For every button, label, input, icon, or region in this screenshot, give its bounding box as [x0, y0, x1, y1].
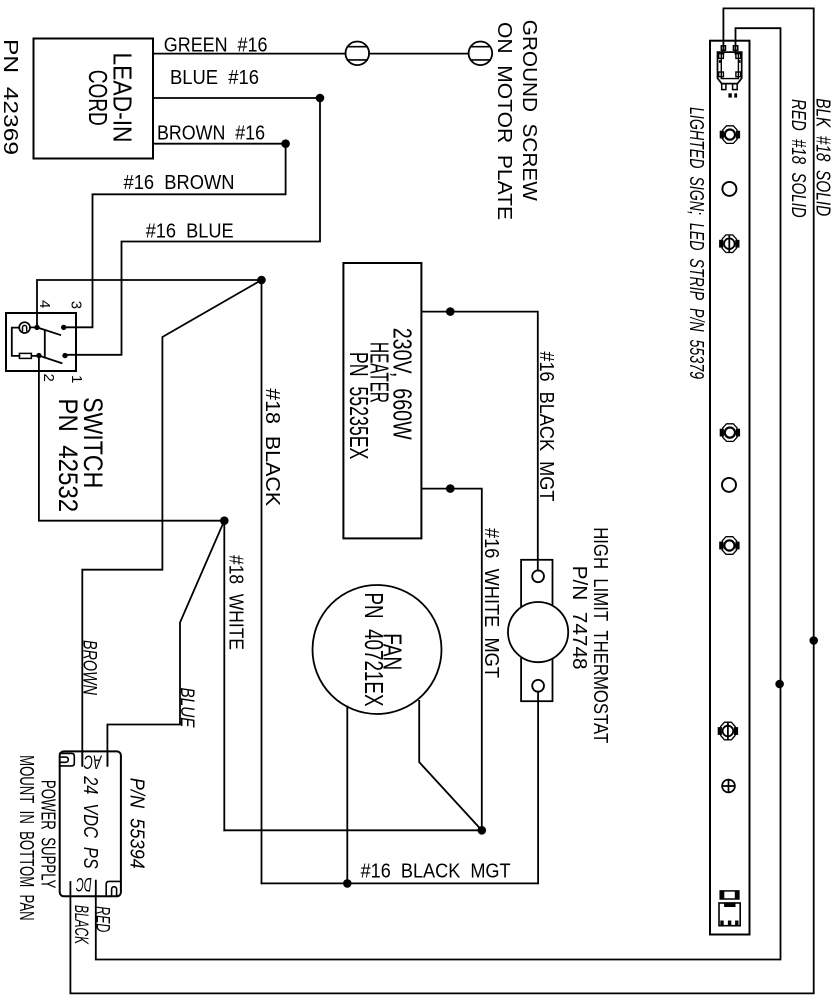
svg-text:#16 WHITE MGT: #16 WHITE MGT [480, 528, 502, 678]
node fan left [343, 879, 352, 888]
svg-text:BLUE: BLUE [176, 688, 197, 728]
heater box [343, 263, 421, 538]
svg-text:CORD: CORD [83, 70, 113, 126]
wire bottom return #16 BLACK MGT y=883 [262, 882, 539, 884]
svg-text:P/N 55394: P/N 55394 [126, 778, 148, 869]
svg-text:2: 2 [40, 374, 57, 382]
svg-text:PN 42369: PN 42369 [0, 39, 21, 155]
wire fan left lead [346, 707, 348, 884]
thermostat body [521, 560, 552, 701]
node A [257, 276, 266, 285]
switch box [6, 313, 76, 371]
svg-text:BLK #18 SOLID: BLK #18 SOLID [812, 98, 834, 216]
wire switch pin4 to node A [37, 280, 262, 327]
switch blade 2-1 [39, 356, 62, 364]
ground screw 1 [346, 42, 370, 66]
svg-text:GREEN #16: GREEN #16 [164, 34, 268, 56]
LED strip hole 1 [722, 182, 736, 196]
wire heater bottom / #16 WHITE MGT [421, 489, 481, 831]
svg-text:BLUE #16: BLUE #16 [170, 67, 259, 89]
svg-text:3: 3 [67, 301, 84, 309]
node on BLUE #16 wire [316, 94, 325, 103]
svg-text:GROUND SCREW: GROUND SCREW [518, 20, 540, 201]
LED strip crosshair hole [722, 780, 735, 793]
LED module 4 [719, 537, 739, 555]
svg-text:4: 4 [36, 300, 53, 308]
wire BLUE #16 [65, 98, 320, 355]
node on BROWN #16 wire [281, 139, 290, 148]
power supply box [60, 751, 121, 896]
wire #18 WHITE vertical [223, 521, 225, 831]
LED strip outline [710, 41, 750, 935]
svg-text:BLACK: BLACK [70, 905, 91, 945]
wire heater top / #16 BLACK MGT to thermostat [421, 312, 537, 571]
svg-text:MOUNT IN BOTTOM PAN: MOUNT IN BOTTOM PAN [15, 755, 37, 921]
svg-text:24 VDC PS: 24 VDC PS [79, 775, 101, 869]
node on BLK #18 wire [809, 636, 818, 645]
switch gang link [44, 330, 46, 358]
svg-text:BROWN: BROWN [79, 640, 100, 695]
switch pin 1 [62, 353, 67, 358]
wire BROWN to power supply AC [82, 280, 261, 766]
svg-text:#16 BLUE: #16 BLUE [146, 221, 234, 243]
svg-text:ON MOTOR PLATE: ON MOTOR PLATE [493, 22, 515, 220]
wire #18 BLACK vertical [261, 280, 263, 883]
wire thermostat bottom lead [537, 692, 539, 884]
wire GREEN #16 [153, 53, 469, 55]
switch neon lamp [19, 322, 37, 333]
svg-text:BROWN #16: BROWN #16 [157, 123, 265, 145]
node B [220, 516, 229, 525]
LED strip connector [718, 46, 742, 98]
svg-text:#18 WHITE: #18 WHITE [225, 555, 247, 650]
wire BROWN #16 [64, 144, 286, 328]
wire RED: power supply DC to LED strip [96, 28, 781, 959]
wire fan right lead [419, 701, 482, 830]
svg-text:#16 BLACK MGT: #16 BLACK MGT [361, 861, 511, 883]
svg-text:1: 1 [68, 375, 85, 383]
wire node B return y=830 [224, 829, 482, 831]
ground screw 2 [469, 42, 493, 66]
switch pin 4 [34, 325, 39, 330]
svg-text:#18 BLACK: #18 BLACK [261, 388, 283, 507]
switch pin 2 [36, 353, 41, 358]
svg-text:#16 BROWN: #16 BROWN [124, 172, 235, 194]
wire BLUE to power supply AC [107, 521, 224, 766]
svg-text:HIGH LIMIT THERMOSTAT: HIGH LIMIT THERMOSTAT [589, 527, 611, 743]
power supply AC pin stubs [82, 751, 107, 765]
switch pin 3 [61, 325, 66, 330]
switch resistor [19, 353, 31, 358]
svg-text:#16 BLACK MGT: #16 BLACK MGT [535, 351, 557, 501]
LED module 2 (phi) [719, 235, 739, 253]
svg-text:P/N 74748: P/N 74748 [568, 566, 590, 670]
wire switch pin2 to node B [39, 356, 224, 521]
svg-text:AC: AC [84, 750, 103, 771]
svg-text:DC: DC [76, 873, 92, 894]
LED module 5 (phi) [718, 722, 738, 740]
LED module 1 [720, 126, 740, 144]
node heater bottom [446, 484, 455, 493]
node on RED #18 wire [775, 680, 784, 689]
lead-in cord box PN 42369 [34, 39, 154, 159]
svg-text:RED: RED [92, 906, 113, 932]
power supply bottom-right notch [106, 881, 121, 896]
svg-text:LIGHTED SIGN; LED STRIP P/: LIGHTED SIGN; LED STRIP P/N 55379 [685, 107, 707, 379]
node heater top [446, 307, 455, 316]
svg-text:RED #18 SOLID: RED #18 SOLID [787, 99, 809, 218]
svg-text:PN 40721EX: PN 40721EX [359, 593, 389, 707]
switch lamp-resistor link wire [12, 328, 39, 356]
svg-text:PN 42532: PN 42532 [53, 398, 83, 512]
node fan/thermo return [478, 826, 487, 835]
LED module 3 [720, 424, 740, 442]
switch blade 4-3 [37, 327, 60, 335]
LED strip end resistor [720, 891, 739, 899]
svg-text:PN 55235EX: PN 55235EX [344, 352, 374, 460]
power supply top-left notch [60, 753, 75, 766]
LED strip hole 2 [722, 478, 736, 492]
fan circle [313, 585, 442, 714]
LED strip driver IC [719, 902, 740, 925]
svg-text:POWER SUPPLY: POWER SUPPLY [36, 780, 58, 889]
